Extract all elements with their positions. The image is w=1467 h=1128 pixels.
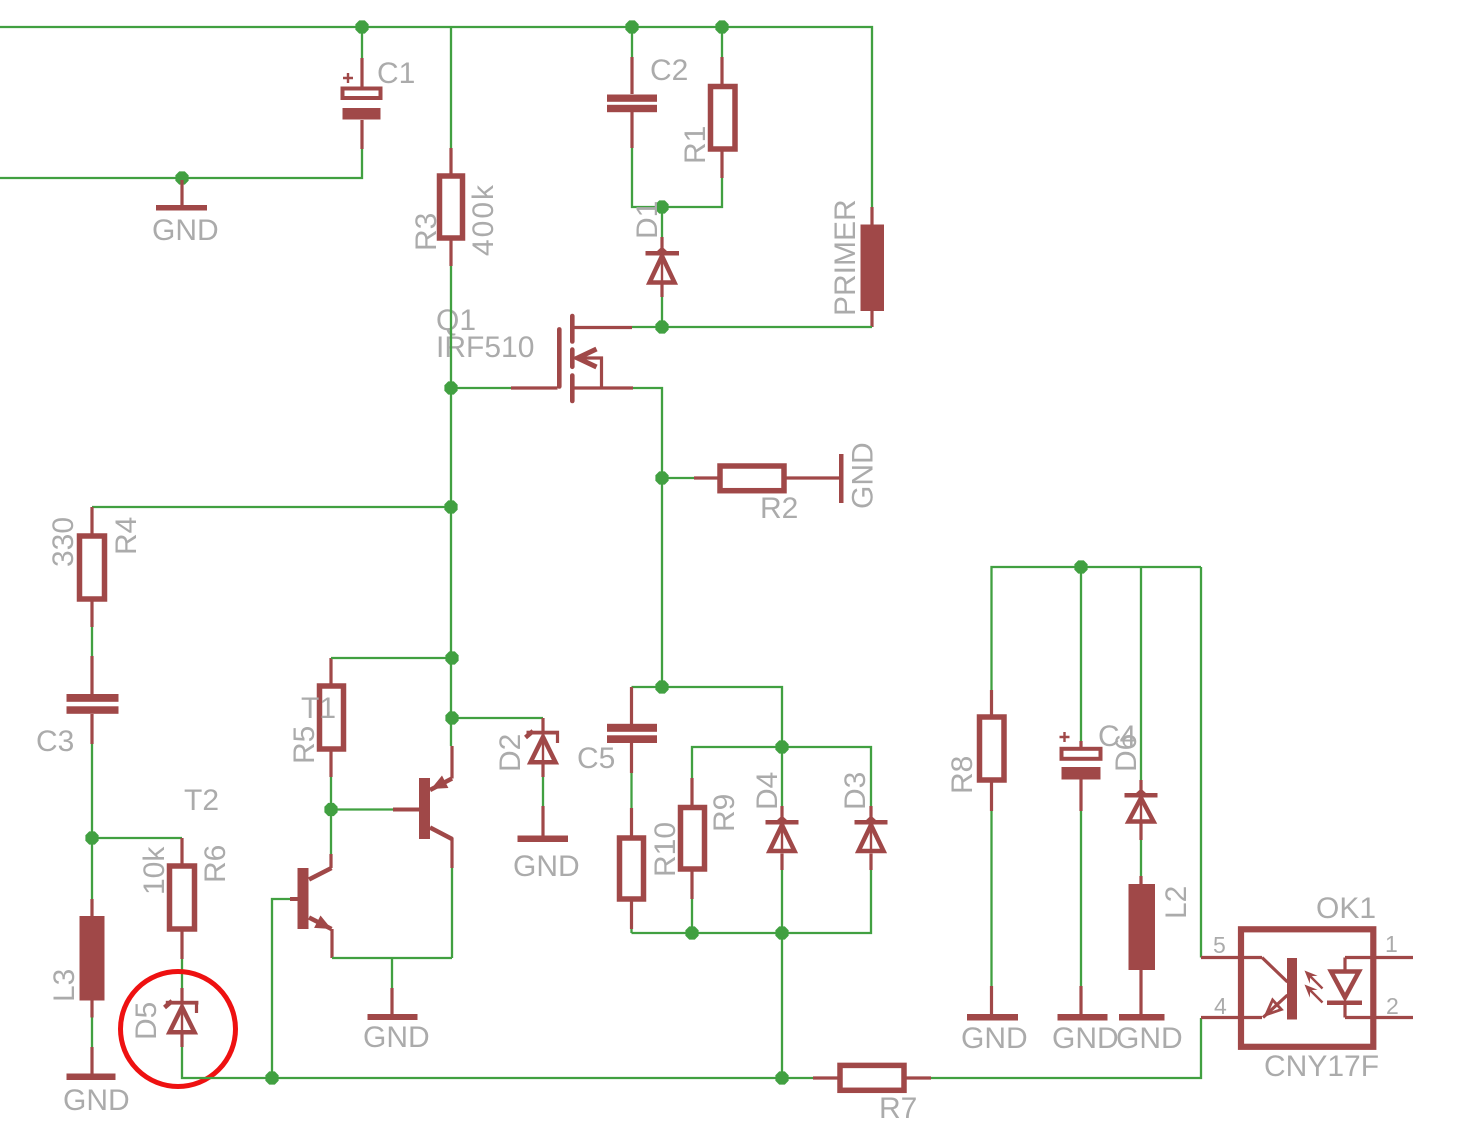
svg-text:R9: R9 xyxy=(708,794,741,832)
svg-text:D5: D5 xyxy=(130,1002,163,1040)
wire to R5 xyxy=(331,657,452,659)
resistor R4 xyxy=(47,507,143,627)
junction node bottom rail xyxy=(775,1071,788,1084)
svg-text:T1: T1 xyxy=(301,692,336,725)
junction node GND input xyxy=(175,171,188,184)
svg-text:400k: 400k xyxy=(467,183,500,256)
svg-text:R8: R8 xyxy=(946,756,979,794)
ground GND at T1 T2 xyxy=(363,958,430,1054)
resistor R10 xyxy=(620,808,683,929)
junction node D1 top xyxy=(655,200,668,213)
wire C5 to R10 xyxy=(630,773,632,808)
svg-text:D4: D4 xyxy=(751,772,784,810)
wire D4 bottom xyxy=(781,870,783,933)
resistor R6 xyxy=(138,838,232,959)
optocoupler OK1 CNY17F xyxy=(1201,892,1413,1083)
junction node R2 tap xyxy=(655,471,668,484)
junction node D4 top xyxy=(775,740,788,753)
resistor R7 xyxy=(813,1065,931,1125)
wire R3 bottom column xyxy=(450,266,452,746)
wire C2 bottom xyxy=(632,148,662,207)
junction node L3 R6 xyxy=(85,831,98,844)
resistor R1 xyxy=(679,57,735,178)
pin 5 lead xyxy=(1201,956,1262,959)
wire T2 collector xyxy=(330,810,332,855)
wire source down xyxy=(633,388,662,687)
wire R6 to D5 xyxy=(181,959,183,988)
svg-text:GND: GND xyxy=(1052,1022,1119,1055)
svg-text:CNY17F: CNY17F xyxy=(1264,1050,1379,1083)
svg-text:4: 4 xyxy=(1214,993,1227,1019)
svg-text:330: 330 xyxy=(47,517,80,567)
wire T2 base column xyxy=(272,899,290,1078)
pin 2 lead xyxy=(1345,1016,1413,1019)
wire bottom mid rail xyxy=(632,932,783,934)
wire gate xyxy=(451,387,511,389)
light arrow a xyxy=(1307,973,1323,989)
wire C5 node to D4 column xyxy=(662,687,782,747)
svg-text:R4: R4 xyxy=(110,517,143,555)
zener diode D5 xyxy=(130,988,198,1047)
wire T1 collector down xyxy=(451,868,453,958)
led anode line xyxy=(1343,958,1346,972)
junction node D2 tap xyxy=(445,711,458,724)
transistor T1 xyxy=(393,746,452,868)
wire to R4 xyxy=(92,506,451,508)
led cathode bar xyxy=(1327,1001,1362,1006)
svg-text:10k: 10k xyxy=(138,846,171,895)
svg-text:D2: D2 xyxy=(494,734,527,772)
emitter arrow xyxy=(1266,1000,1281,1015)
wire D6 to L2 xyxy=(1140,840,1142,876)
wire to R2 xyxy=(662,477,694,479)
light arrow b xyxy=(1307,987,1323,1003)
svg-text:D6: D6 xyxy=(1110,734,1143,772)
resistor R3 xyxy=(410,148,500,266)
svg-text:D1: D1 xyxy=(631,201,664,239)
wire D6 top xyxy=(1140,567,1142,780)
svg-text:OK1: OK1 xyxy=(1316,892,1376,925)
ground GND at D2 xyxy=(513,777,580,883)
wire R9 bottom xyxy=(691,899,693,933)
diode D1 xyxy=(631,201,679,297)
phototransistor base bar xyxy=(1287,958,1297,1020)
wire to R6 xyxy=(92,837,182,839)
svg-text:R5: R5 xyxy=(288,726,321,764)
svg-text:PRIMER: PRIMER xyxy=(829,199,862,316)
svg-text:GND: GND xyxy=(363,1021,430,1054)
svg-text:R3: R3 xyxy=(410,213,443,251)
svg-text:D3: D3 xyxy=(839,772,872,810)
svg-text:2: 2 xyxy=(1386,993,1399,1019)
inductor L3 xyxy=(48,838,105,1018)
svg-text:5: 5 xyxy=(1213,932,1226,958)
capacitor C4 xyxy=(1060,567,1137,811)
capacitor C2 xyxy=(607,54,688,148)
wire R8 down xyxy=(990,811,992,986)
wire D3 bottom xyxy=(782,870,871,933)
wire R4 to C3 xyxy=(91,627,93,656)
wire D4 top xyxy=(781,747,783,806)
wire C2 top xyxy=(631,27,633,57)
pin 1 lead xyxy=(1345,956,1413,959)
capacitor C3 xyxy=(36,656,119,758)
resistor R8 xyxy=(946,690,1004,811)
wire drain to primer xyxy=(632,326,872,328)
wire D1 bottom xyxy=(661,297,663,327)
wire R5 bottom xyxy=(330,777,332,810)
phototransistor collector xyxy=(1262,958,1288,983)
led triangle xyxy=(1331,972,1359,998)
svg-text:C1: C1 xyxy=(377,57,415,90)
wire C3 down xyxy=(91,744,93,838)
wire emitter rail xyxy=(332,957,452,959)
wire R3 top xyxy=(450,27,452,148)
junction node C4 top xyxy=(1074,560,1087,573)
wire R1 bottom xyxy=(662,178,722,207)
ground GND at R8 xyxy=(961,986,1028,1055)
svg-text:T2: T2 xyxy=(184,784,219,817)
inductor L2 xyxy=(1129,876,1194,1014)
mosfet Q1 IRF510 xyxy=(436,304,633,401)
svg-text:L3: L3 xyxy=(48,969,81,1002)
wire bottom rail right xyxy=(931,1018,1201,1078)
junction node drain xyxy=(655,320,668,333)
led cathode line xyxy=(1343,1005,1346,1018)
junction node R4 tap xyxy=(444,500,457,513)
junction node R1 top xyxy=(715,20,728,33)
svg-text:GND: GND xyxy=(1116,1022,1183,1055)
ground GND at L2 xyxy=(1116,1014,1183,1055)
wire to R9 xyxy=(692,747,782,778)
svg-text:R2: R2 xyxy=(760,492,798,525)
junction node bottom left xyxy=(265,1071,278,1084)
resistor R5 xyxy=(288,658,344,777)
svg-text:C5: C5 xyxy=(577,742,615,775)
wire down to bottom rail xyxy=(781,933,783,1078)
junction node D4 bottom xyxy=(775,926,788,939)
phototransistor emitter xyxy=(1263,995,1288,1018)
wire top rail xyxy=(0,27,872,207)
svg-text:1: 1 xyxy=(1385,931,1398,957)
junction node C1 top xyxy=(355,20,368,33)
svg-text:R7: R7 xyxy=(879,1092,917,1125)
wire input return xyxy=(0,149,362,178)
zener diode D2 xyxy=(494,718,559,777)
svg-text:R6: R6 xyxy=(199,845,232,883)
svg-text:R10: R10 xyxy=(649,822,682,877)
resistor R2 xyxy=(694,466,840,525)
diode D6 xyxy=(1110,734,1158,840)
ground GND at R2 xyxy=(839,442,880,509)
wire bottom rail left xyxy=(182,1047,813,1078)
svg-text:GND: GND xyxy=(63,1084,130,1117)
wire base T1 xyxy=(331,808,393,810)
ground GND at L3 xyxy=(63,1018,130,1118)
ground GND at C4 xyxy=(1052,986,1119,1055)
svg-text:C2: C2 xyxy=(650,54,688,87)
transistor T2 xyxy=(290,854,332,958)
diode D4 xyxy=(751,772,799,870)
ground GND input xyxy=(152,180,219,247)
junction node R5 top xyxy=(445,651,458,664)
svg-text:GND: GND xyxy=(961,1022,1028,1055)
wire C1 top xyxy=(361,27,363,58)
red highlight circle around D5 xyxy=(121,972,236,1087)
svg-text:GND: GND xyxy=(847,442,880,509)
capacitor C1 xyxy=(343,57,416,149)
wire R1 top xyxy=(721,27,723,57)
svg-text:R1: R1 xyxy=(679,126,712,164)
svg-text:GND: GND xyxy=(513,850,580,883)
wire top right rail xyxy=(992,567,1202,690)
resistor R9 xyxy=(681,778,742,899)
wire OK1 pin5 feed xyxy=(1200,567,1202,958)
junction node C2 top xyxy=(625,20,638,33)
junction node R9 bottom xyxy=(685,926,698,939)
pin 4 lead xyxy=(1201,1016,1262,1019)
wire C4 down xyxy=(1080,811,1082,986)
wire D1 top xyxy=(661,207,663,237)
junction node T1 base xyxy=(324,803,337,816)
svg-text:L2: L2 xyxy=(1160,886,1193,919)
wire R10 bottom xyxy=(630,929,632,933)
svg-text:C3: C3 xyxy=(36,725,74,758)
diode D3 xyxy=(839,772,888,870)
wire D3 top xyxy=(782,747,871,806)
transformer winding PRIMER xyxy=(829,199,884,327)
wire to D2 xyxy=(452,717,543,719)
capacitor C5 xyxy=(577,687,662,775)
junction node C5 tap xyxy=(655,680,668,693)
svg-text:GND: GND xyxy=(152,214,219,247)
junction node gate xyxy=(444,381,457,394)
